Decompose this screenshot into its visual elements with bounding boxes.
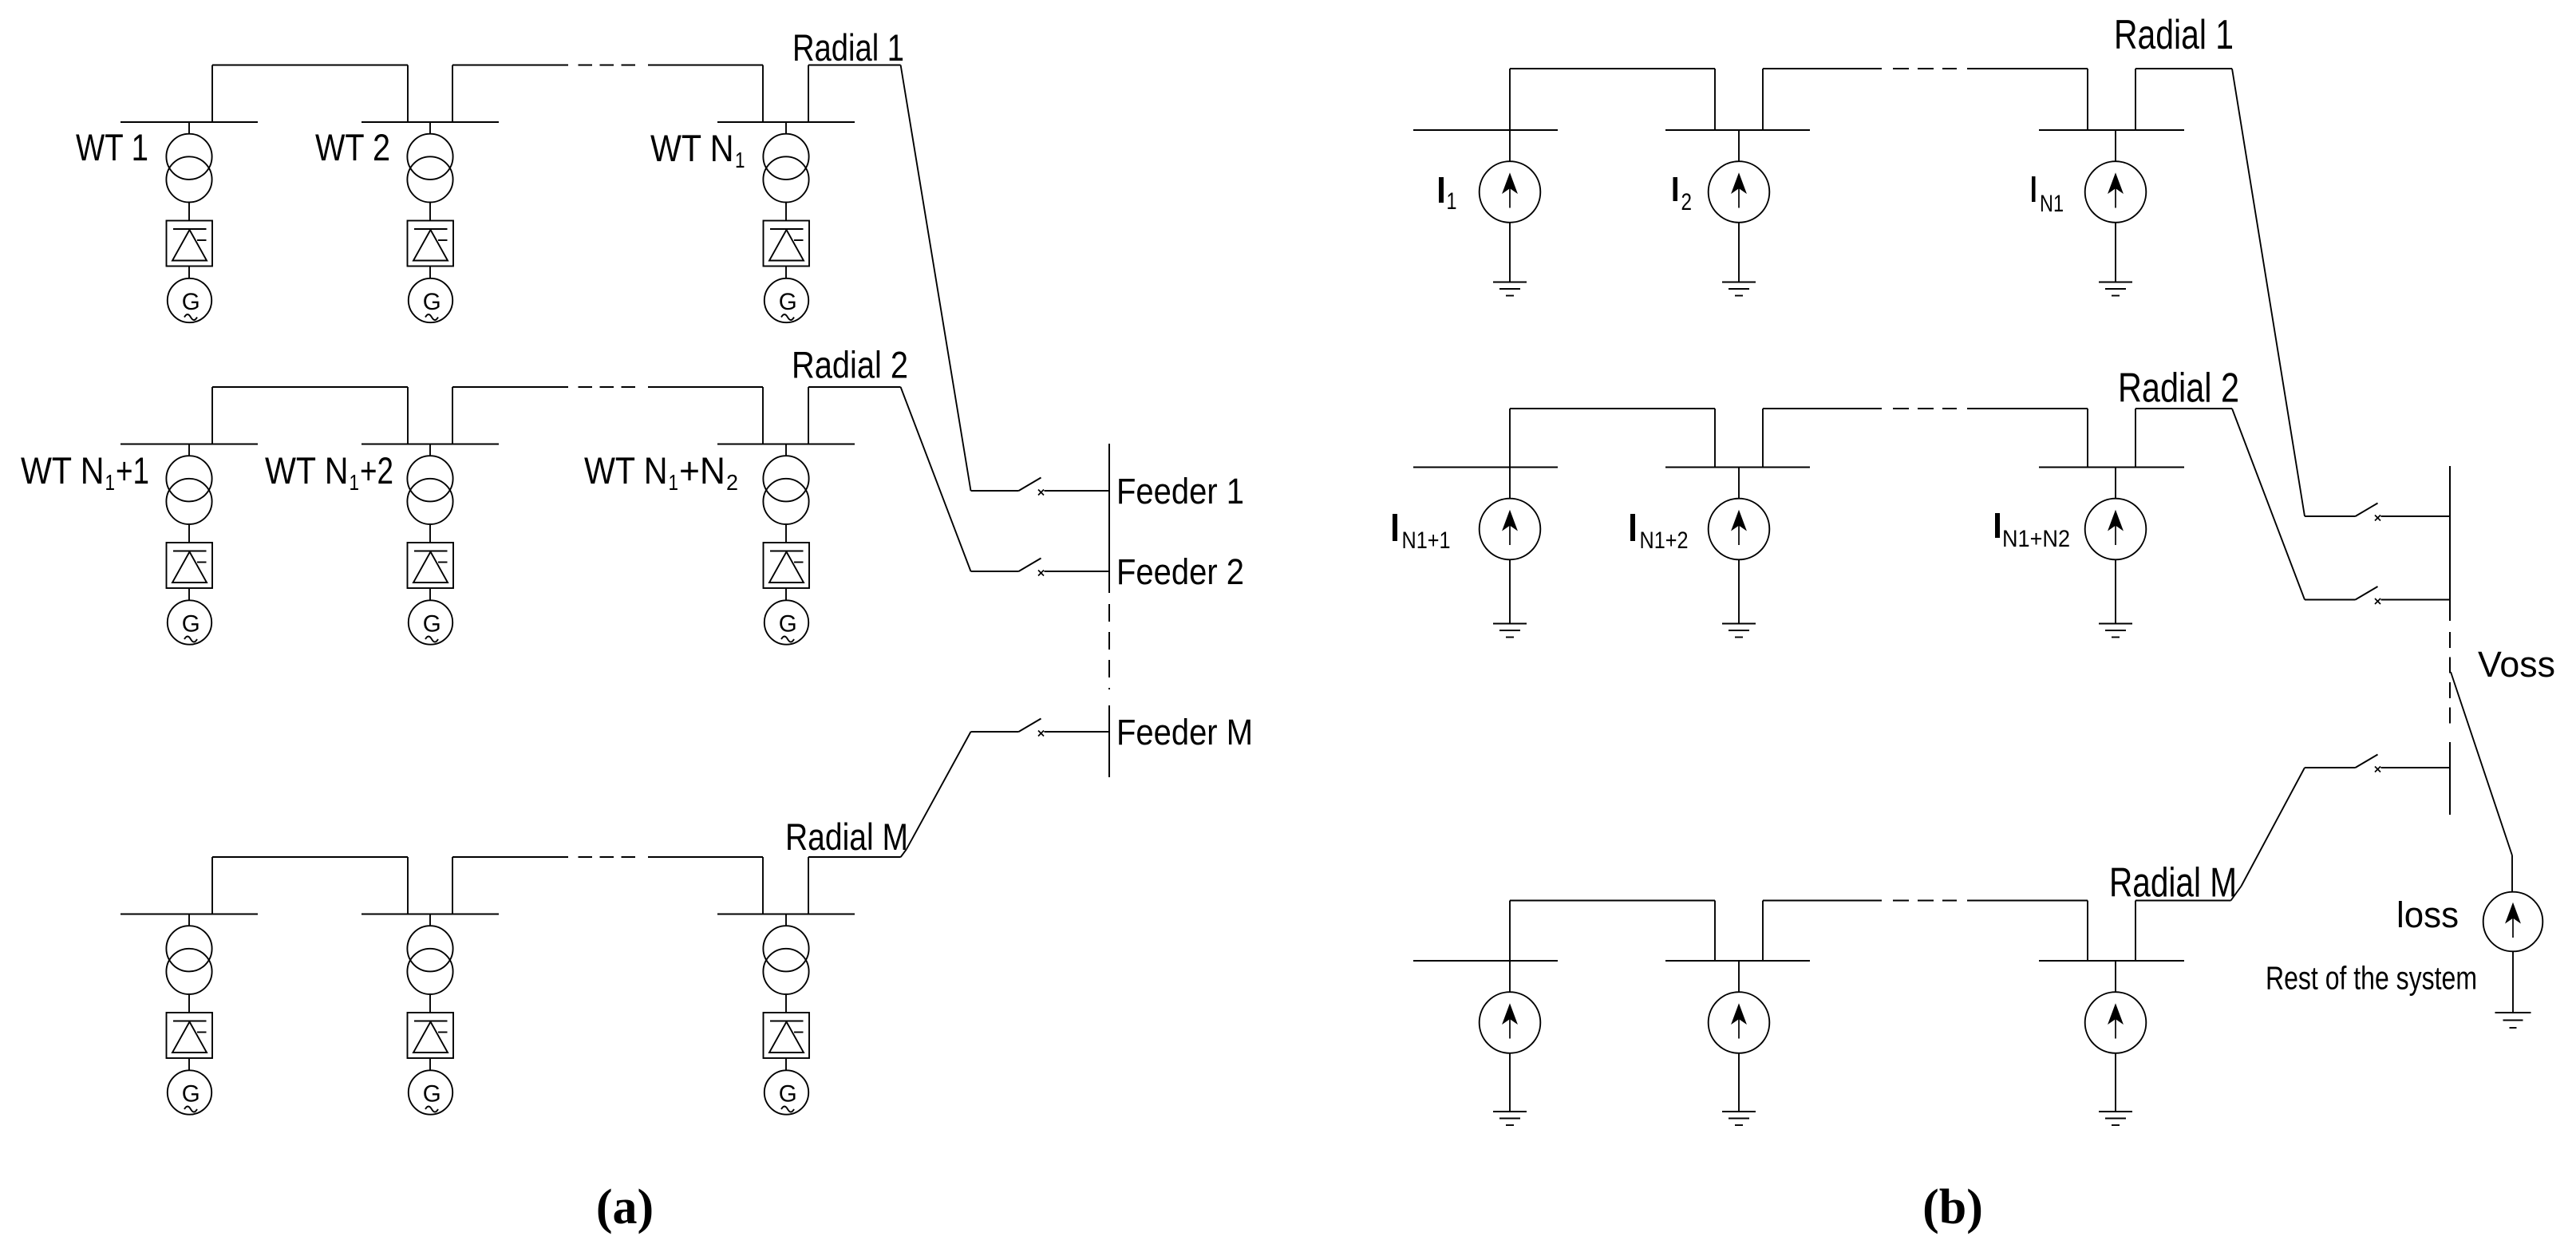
label WT N1+2 — [265, 449, 393, 495]
wire current source 9 to ground — [2115, 1053, 2116, 1112]
wire transformer to converter 3 — [785, 203, 787, 221]
wire current source 2 to ground — [1738, 223, 1740, 282]
svg-text:WT 2: WT 2 — [315, 126, 390, 168]
label IN1 — [2032, 176, 2064, 217]
wire current source 7 to ground — [1509, 1053, 1511, 1112]
svg-text:WT N: WT N — [21, 449, 105, 492]
node bus 2 (b row 1 col 2) — [1665, 129, 1810, 131]
node Voss bus (offshore substation busbar) — [2449, 466, 2451, 815]
wire transformer to converter 9 — [785, 994, 787, 1013]
label IN1+N2 — [1995, 513, 2070, 552]
transformer T5 (two-winding) — [407, 456, 452, 524]
generator G1 (wind turbine generator) — [168, 278, 211, 322]
svg-text:WT N: WT N — [650, 127, 734, 169]
wire bus to current source 2 — [1738, 130, 1740, 161]
svg-text:WT 1: WT 1 — [76, 126, 148, 168]
wire bus to transformer T3 — [785, 122, 787, 134]
svg-text:G: G — [779, 289, 797, 315]
label Radial 2 (b) — [2118, 365, 2239, 412]
svg-text:G: G — [182, 611, 200, 638]
ground symbol 8 — [1722, 1112, 1756, 1125]
ground symbol 6 — [2099, 624, 2132, 638]
svg-text:(b): (b) — [1922, 1180, 1983, 1234]
wire current source 6 to ground — [2115, 559, 2116, 623]
label IN1+2 — [1630, 514, 1689, 554]
label Voss — [2478, 644, 2555, 685]
generator G4 (wind turbine generator) — [168, 600, 211, 644]
svg-text:N1: N1 — [2040, 191, 2064, 217]
node bus 5 (b row 2 col 2) — [1665, 467, 1810, 468]
svg-text:1: 1 — [1447, 188, 1457, 215]
svg-text:Rest of the system: Rest of the system — [2266, 960, 2477, 997]
wire radial 2 (b): equivalent collection line with dashed continuation — [1510, 409, 2305, 600]
generator G2 (wind turbine generator) — [409, 278, 452, 322]
svg-text:Radial 2: Radial 2 — [2118, 365, 2239, 412]
svg-text:Radial M: Radial M — [2109, 860, 2237, 906]
current source I3 (circle with arrow) — [2085, 161, 2147, 223]
label Feeder 1 — [1116, 471, 1244, 511]
svg-text:+1: +1 — [116, 449, 149, 492]
wire Voss bus to rest-of-system source — [2451, 672, 2512, 892]
transformer T9 (two-winding) — [763, 926, 808, 994]
svg-text:+2: +2 — [360, 449, 393, 492]
wire current source 1 to ground — [1509, 223, 1511, 282]
svg-text:Radial 2: Radial 2 — [792, 344, 908, 386]
converter U7 (full power converter) — [167, 1013, 213, 1058]
wire bus to transformer T5 — [429, 444, 431, 456]
wire bus to current source 6 — [2115, 468, 2116, 499]
node WT bus 8 (busbar, a row 3 col 2) — [362, 914, 499, 915]
wire converter to generator 2 — [429, 267, 431, 279]
switch feeder 2 breaker (a) — [971, 559, 1110, 576]
switch feeder M breaker (a) — [971, 719, 1110, 737]
transformer T7 (two-winding) — [166, 926, 211, 994]
wire bus to current source 5 — [1738, 468, 1740, 499]
converter U3 (full power converter) — [764, 221, 810, 267]
label WT N1+N2 — [584, 449, 738, 495]
node bus 1 (b row 1 col 1) — [1413, 129, 1558, 131]
wire bus to transformer T8 — [429, 914, 431, 926]
current source I9 (circle with arrow) — [2085, 992, 2147, 1053]
svg-text:WT N: WT N — [584, 449, 668, 492]
svg-text:+N: +N — [679, 449, 725, 492]
generator G9 (wind turbine generator) — [765, 1070, 808, 1114]
node bus 9 (b row 3 col 3) — [2039, 960, 2184, 962]
wire transformer to converter 4 — [188, 524, 190, 543]
svg-text:Feeder M: Feeder M — [1116, 712, 1253, 752]
wire converter to generator 3 — [785, 267, 787, 279]
svg-text:G: G — [779, 1081, 797, 1108]
wire bus to transformer T6 — [785, 444, 787, 456]
wire current source 8 to ground — [1738, 1053, 1740, 1112]
svg-text:G: G — [182, 289, 200, 315]
wire converter to generator 4 — [188, 588, 190, 601]
wire converter to generator 7 — [188, 1058, 190, 1071]
svg-text:G: G — [423, 289, 441, 315]
label WT 1 — [76, 126, 148, 168]
wire radial M (a): collection line with dashed continuation and drop to feeder — [212, 732, 971, 914]
ground symbol 5 — [1722, 624, 1756, 638]
wire bus to transformer T2 — [429, 122, 431, 134]
transformer T2 (two-winding) — [407, 134, 452, 203]
wire bus to transformer T9 — [785, 914, 787, 926]
wire radial 1 (a): collection line with dashed continuation and drop to feeder — [212, 65, 971, 492]
ground symbol 3 — [2099, 282, 2132, 296]
current source Iloss (rest of the system) — [2483, 892, 2543, 952]
svg-text:1: 1 — [669, 470, 679, 495]
current source I6 (circle with arrow) — [2085, 499, 2147, 560]
label Radial M (a) — [785, 816, 908, 858]
node WT bus 6 (busbar, a row 2 col 3) — [717, 444, 855, 445]
wire current source 3 to ground — [2115, 223, 2116, 282]
svg-text:G: G — [779, 611, 797, 638]
transformer T6 (two-winding) — [763, 456, 808, 524]
label WT N1 — [650, 127, 745, 172]
node WT bus 2 (busbar, a row 1 col 2) — [362, 121, 499, 123]
wire transformer to converter 6 — [785, 524, 787, 543]
generator G5 (wind turbine generator) — [409, 600, 452, 644]
svg-text:1: 1 — [735, 148, 745, 172]
svg-text:Radial M: Radial M — [785, 816, 908, 858]
svg-text:loss: loss — [2396, 895, 2459, 935]
label loss — [2396, 895, 2459, 935]
wire bus to current source 7 — [1509, 961, 1511, 992]
current source I1 (circle with arrow) — [1480, 161, 1541, 223]
wire bus to current source 8 — [1738, 961, 1740, 992]
label Radial M (b) — [2109, 860, 2237, 906]
generator G8 (wind turbine generator) — [409, 1070, 452, 1114]
generator G7 (wind turbine generator) — [168, 1070, 211, 1114]
node WT bus 4 (busbar, a row 2 col 1) — [121, 444, 258, 445]
label Feeder M — [1116, 712, 1253, 752]
ground symbol 4 — [1493, 624, 1527, 638]
svg-text:G: G — [423, 1081, 441, 1108]
wire converter to generator 5 — [429, 588, 431, 601]
converter U9 (full power converter) — [764, 1013, 810, 1058]
svg-text:Radial 1: Radial 1 — [2114, 12, 2234, 58]
wire bus to transformer T7 — [188, 914, 190, 926]
wire current source 5 to ground — [1738, 559, 1740, 623]
current source I5 (circle with arrow) — [1709, 499, 1770, 560]
node bus 3 (b row 1 col 3) — [2039, 129, 2184, 131]
current source I4 (circle with arrow) — [1480, 499, 1541, 560]
wire radial 1 (b): equivalent collection line with dashed continuation — [1510, 69, 2305, 516]
label Radial 2 (a) — [792, 344, 908, 386]
wire transformer to converter 8 — [429, 994, 431, 1013]
svg-text:N1+1: N1+1 — [1402, 527, 1451, 554]
svg-text:1: 1 — [105, 470, 116, 495]
svg-text:G: G — [182, 1081, 200, 1108]
node WT bus 1 (busbar, a row 1 col 1) — [121, 121, 258, 123]
svg-text:N1+N2: N1+N2 — [2002, 526, 2070, 552]
svg-text:1: 1 — [350, 470, 360, 495]
svg-text:Radial 1: Radial 1 — [792, 26, 904, 69]
wire rest-of-system source to ground — [2512, 951, 2514, 1013]
wire bus to current source 1 — [1509, 130, 1511, 161]
wire converter to generator 8 — [429, 1058, 431, 1071]
label Radial 1 (a) — [792, 26, 904, 69]
converter U6 (full power converter) — [764, 543, 810, 588]
label I2 — [1673, 177, 1693, 215]
svg-text:N1+2: N1+2 — [1640, 527, 1689, 554]
wire transformer to converter 1 — [188, 203, 190, 221]
switch radial 1 breaker (b) — [2305, 504, 2450, 521]
svg-text:G: G — [423, 611, 441, 638]
converter U8 (full power converter) — [408, 1013, 454, 1058]
ground symbol 2 — [1722, 282, 1756, 296]
generator G3 (wind turbine generator) — [765, 278, 808, 322]
wire transformer to converter 2 — [429, 203, 431, 221]
node bus 7 (b row 3 col 1) — [1413, 960, 1558, 962]
transformer T3 (two-winding) — [763, 134, 808, 203]
converter U2 (full power converter) — [408, 221, 454, 267]
transformer T4 (two-winding) — [166, 456, 211, 524]
wire bus to current source 4 — [1509, 468, 1511, 499]
wire transformer to converter 7 — [188, 994, 190, 1013]
wire radial M (b): equivalent collection line with dashed continuation — [1510, 768, 2305, 961]
wire bus to current source 9 — [2115, 961, 2116, 992]
label Radial 1 (b) — [2114, 12, 2234, 58]
transformer T1 (two-winding) — [166, 134, 211, 203]
current source I8 (circle with arrow) — [1709, 992, 1770, 1053]
converter U4 (full power converter) — [167, 543, 213, 588]
node bus 6 (b row 2 col 3) — [2039, 467, 2184, 468]
label WT N1+1 — [21, 449, 149, 495]
switch radial M breaker (b) — [2305, 755, 2450, 772]
wire bus to transformer T4 — [188, 444, 190, 456]
svg-text:WT N: WT N — [265, 449, 349, 492]
generator G6 (wind turbine generator) — [765, 600, 808, 644]
label IN1+1 — [1393, 514, 1451, 554]
node Feeder bus (a substation busbar) — [1108, 444, 1110, 777]
wire converter to generator 9 — [785, 1058, 787, 1071]
node WT bus 9 (busbar, a row 3 col 3) — [717, 914, 855, 915]
ground symbol 9 — [2099, 1112, 2132, 1125]
node WT bus 5 (busbar, a row 2 col 2) — [362, 444, 499, 445]
svg-text:2: 2 — [726, 470, 738, 495]
wire converter to generator 6 — [785, 588, 787, 601]
ground symbol rest-of-system — [2495, 1013, 2531, 1028]
transformer T8 (two-winding) — [407, 926, 452, 994]
label Feeder 2 — [1116, 551, 1244, 592]
wire radial 2 (a): collection line with dashed continuation and drop to feeder — [212, 387, 971, 571]
label (b) caption — [1922, 1180, 1983, 1234]
node WT bus 7 (busbar, a row 3 col 1) — [121, 914, 258, 915]
wire transformer to converter 5 — [429, 524, 431, 543]
label Rest of the system — [2266, 960, 2477, 997]
svg-text:(a): (a) — [596, 1180, 654, 1234]
node bus 4 (b row 2 col 1) — [1413, 467, 1558, 468]
svg-text:Feeder 2: Feeder 2 — [1116, 551, 1244, 592]
label I1 — [1439, 177, 1457, 215]
ground symbol 7 — [1493, 1112, 1527, 1125]
label (a) caption — [596, 1180, 654, 1234]
current source I7 (circle with arrow) — [1480, 992, 1541, 1053]
switch feeder 1 breaker (a) — [971, 478, 1110, 496]
wire bus to current source 3 — [2115, 130, 2116, 161]
current source I2 (circle with arrow) — [1709, 161, 1770, 223]
svg-text:2: 2 — [1681, 189, 1693, 215]
wire bus to transformer T1 — [188, 122, 190, 134]
label WT 2 — [315, 126, 390, 168]
converter U1 (full power converter) — [167, 221, 213, 267]
svg-text:Voss: Voss — [2478, 644, 2555, 685]
svg-text:Feeder 1: Feeder 1 — [1116, 471, 1244, 511]
ground symbol 1 — [1493, 282, 1527, 296]
wire converter to generator 1 — [188, 267, 190, 279]
converter U5 (full power converter) — [408, 543, 454, 588]
switch radial 2 breaker (b) — [2305, 587, 2450, 604]
node bus 8 (b row 3 col 2) — [1665, 960, 1810, 962]
wire current source 4 to ground — [1509, 559, 1511, 623]
node WT bus 3 (busbar, a row 1 col 3) — [717, 121, 855, 123]
